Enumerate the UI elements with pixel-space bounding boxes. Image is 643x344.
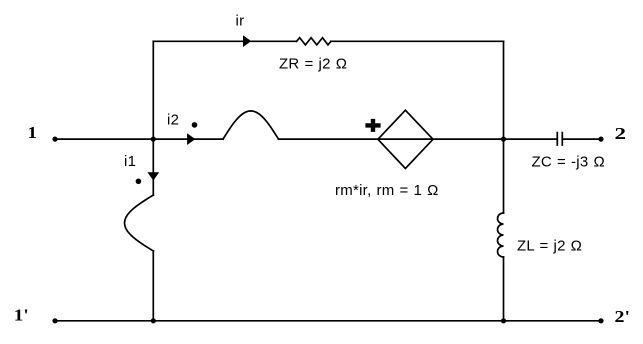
- terminal 2' dot: [598, 318, 603, 323]
- wire mid from hump through source to capacitor: [279, 138, 557, 140]
- current arrow i2: [187, 133, 195, 145]
- inductor winding M (top hump): [223, 111, 279, 139]
- svg-text:ZR = j2 Ω: ZR = j2 Ω: [279, 55, 347, 72]
- resistor ZR: [297, 38, 331, 45]
- svg-text:2: 2: [615, 124, 627, 143]
- current arrow i1: [147, 172, 159, 180]
- junction node right-bottom: [501, 318, 506, 323]
- terminal 1 dot: [52, 137, 57, 142]
- svg-text:ZC = -j3 Ω: ZC = -j3 Ω: [532, 153, 605, 170]
- dependent source U1 diamond: [378, 110, 433, 168]
- junction node left-mid: [151, 137, 156, 142]
- terminal 1' dot: [52, 318, 57, 323]
- inductor ZL: [498, 213, 504, 257]
- dependent source plus polarity mark: [365, 119, 380, 132]
- svg-text:i2: i2: [167, 112, 179, 129]
- coupling polarity dot (i1 winding): [136, 179, 142, 185]
- current arrow ir: [243, 35, 251, 47]
- wire bottom (terminal 1' to terminal 2'): [55, 320, 601, 322]
- junction node right-mid: [501, 137, 506, 142]
- wire left vertical lower: [152, 251, 154, 321]
- wire right vertical upper: [503, 41, 505, 213]
- svg-text:rm*ir, rm = 1 Ω: rm*ir, rm = 1 Ω: [335, 182, 439, 199]
- wire mid capacitor to terminal 2: [562, 138, 601, 140]
- svg-text:ZL = j2 Ω: ZL = j2 Ω: [517, 237, 582, 254]
- wire mid from terminal 1 to hump: [55, 138, 223, 140]
- svg-text:1': 1': [14, 306, 29, 325]
- svg-text:i1: i1: [124, 153, 136, 170]
- svg-text:2': 2': [615, 307, 631, 326]
- wire top (node A to node B): [153, 40, 503, 42]
- svg-text:1: 1: [28, 123, 38, 142]
- svg-text:ir: ir: [236, 13, 245, 30]
- terminal 2 dot: [598, 137, 603, 142]
- junction node left-bottom: [151, 318, 156, 323]
- wire right vertical lower: [503, 257, 505, 321]
- inductor winding L1 (left hump): [125, 195, 154, 251]
- wire left vertical upper: [152, 41, 154, 195]
- capacitor ZC plates: [557, 133, 562, 145]
- coupling polarity dot (i2 winding): [192, 122, 198, 128]
